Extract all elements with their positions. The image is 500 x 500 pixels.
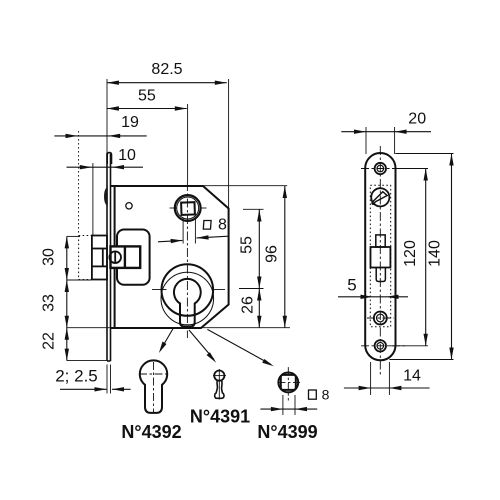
- body top extension line: [203, 185, 287, 187]
- svg-text:14: 14: [403, 368, 421, 385]
- icon N°4392 euro cylinder: [140, 360, 167, 413]
- lock body outline: [111, 186, 229, 328]
- svg-text:55: 55: [239, 236, 256, 254]
- svg-text:55: 55: [138, 88, 156, 105]
- extension line x92.9 (10 dim to latch): [92, 163, 94, 235]
- dimension 14: [344, 362, 430, 395]
- square 8 dimension at follower: [158, 218, 229, 244]
- faceplate side view: [107, 153, 112, 361]
- left dimension stack 30/33/22: [65, 236, 107, 360]
- bottom screw: [375, 340, 386, 351]
- spindle block: [371, 247, 391, 268]
- cylinder center extension right: [239, 288, 264, 290]
- dimension 20: [341, 127, 431, 154]
- svg-text:82.5: 82.5: [151, 61, 182, 78]
- svg-text:26: 26: [240, 296, 257, 314]
- svg-text:8: 8: [322, 386, 330, 402]
- small hole top-left of body: [126, 203, 132, 209]
- svg-text:120: 120: [402, 240, 419, 267]
- square symbol + 8 label (follower): [203, 221, 211, 230]
- body bottom extension line: [67, 327, 290, 329]
- icon N°4399 square spindle: [278, 373, 298, 393]
- euro cylinder hole (bold upper circle): [162, 264, 214, 316]
- svg-text:22: 22: [41, 332, 58, 350]
- dimension 2;2.5: [60, 387, 131, 391]
- dimension under 4399: [260, 395, 317, 415]
- dimension 82.5: [107, 81, 227, 85]
- leader arrow to N°4391: [189, 330, 216, 363]
- spindle slot upper: [376, 235, 385, 247]
- dimension 5: [338, 295, 408, 299]
- screw at latch: [109, 251, 121, 263]
- svg-text:30: 30: [41, 248, 58, 266]
- dotted countersink rect: [370, 185, 390, 326]
- plate vertical centerline: [379, 146, 381, 375]
- svg-text:10: 10: [118, 147, 136, 164]
- latch housing rounded rect: [117, 230, 150, 285]
- svg-text:N°4391: N°4391: [190, 407, 250, 427]
- dimension 55 top: [107, 106, 187, 110]
- dashed latch extended position: [79, 236, 92, 280]
- square-8 label at 4399: [309, 390, 317, 399]
- euro cylinder hole (thin lower circle): [161, 272, 214, 325]
- svg-text:20: 20: [408, 111, 426, 128]
- follower horizontal centerline stubs: [170, 207, 177, 209]
- dimension 140: [389, 154, 453, 360]
- dimension 120: [389, 169, 428, 346]
- extension line x187.6 (55 dim to follower): [187, 104, 189, 182]
- extension line left x107: [106, 79, 108, 153]
- latch bolt (side view): [92, 236, 107, 280]
- faceplate thickness extension lines: [106, 365, 108, 394]
- leader arrow to N°4399: [207, 329, 274, 366]
- extension line x228.6 (right, from 82.5 dim to body corner): [228, 79, 230, 209]
- dimension 96 vertical: [283, 186, 287, 328]
- dimension 19: [54, 134, 146, 138]
- leader arrow to N°4392: [159, 329, 173, 353]
- spindle slot lower: [376, 268, 385, 282]
- top screw: [375, 163, 386, 174]
- euro profile cutout: [174, 279, 201, 327]
- cylinder centerlines: [152, 289, 167, 291]
- svg-text:140: 140: [427, 240, 444, 267]
- plate stadium: [365, 153, 395, 360]
- spring detail on faceplate: [105, 188, 108, 206]
- lower hole: [374, 312, 387, 325]
- dimension 55 vertical: [257, 210, 261, 289]
- dimension 10: [67, 165, 144, 169]
- slotted adjuster: [371, 188, 389, 206]
- svg-text:19: 19: [121, 114, 139, 131]
- extension line x78.6 (19 dim to dashed latch): [78, 131, 80, 235]
- latch tail block: [111, 246, 141, 268]
- svg-text:N°4399: N°4399: [257, 422, 317, 442]
- svg-text:96: 96: [264, 245, 281, 263]
- svg-text:8: 8: [218, 217, 227, 234]
- svg-text:N°4392: N°4392: [121, 422, 181, 442]
- dimension 26 vertical: [257, 289, 261, 328]
- follower center extension right: [243, 208, 264, 210]
- follower (square spindle hub): [175, 195, 201, 221]
- icon N°4391 key: [214, 371, 224, 399]
- svg-text:33: 33: [41, 294, 58, 312]
- svg-text:2; 2.5: 2; 2.5: [55, 367, 98, 386]
- svg-text:5: 5: [347, 276, 356, 295]
